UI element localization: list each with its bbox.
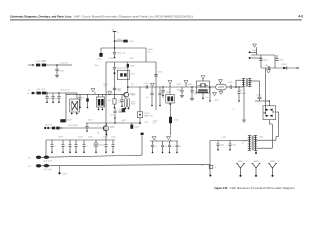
wire — [250, 80, 259, 82]
svg-text:47p: 47p — [97, 133, 100, 135]
inductor L4222 — [56, 127, 59, 130]
capacitor C4253 — [55, 65, 64, 75]
label L4201 — [36, 89, 45, 91]
label R4416 — [131, 101, 136, 105]
label misc 20 — [232, 109, 234, 111]
svg-text:C4223 1000p: C4223 1000p — [68, 125, 78, 127]
wire LO out — [261, 58, 297, 68]
svg-text:C4453: C4453 — [232, 145, 237, 147]
capacitor C4411 — [158, 87, 164, 106]
inductor L4202 — [42, 92, 46, 95]
label misc 17 — [107, 91, 112, 93]
connector P2 — [28, 164, 52, 171]
diode CR4462 — [281, 64, 287, 70]
mixer U4401 — [263, 106, 276, 120]
wire mixer right — [276, 112, 279, 140]
node — [56, 64, 58, 66]
capacitor C4437 inline — [228, 82, 233, 89]
label misc 1 — [117, 32, 119, 34]
capacitor C4416 inline — [144, 83, 149, 89]
svg-text:C4437: C4437 — [228, 82, 233, 84]
label R4427 — [122, 120, 127, 124]
capacitor C4408 — [113, 62, 126, 84]
wire — [34, 92, 66, 94]
svg-text:C4414: C4414 — [117, 90, 122, 92]
capacitor C4445 — [151, 141, 157, 153]
svg-text:0.1u: 0.1u — [131, 84, 134, 86]
label misc 11 — [259, 137, 264, 139]
svg-text:R4405: R4405 — [109, 58, 114, 60]
svg-text:C11: C11 — [82, 98, 85, 100]
svg-text:82p: 82p — [266, 65, 269, 67]
label misc 9 — [188, 84, 193, 86]
capacitor bus1 3 — [69, 140, 72, 153]
svg-text:10p: 10p — [146, 97, 149, 99]
svg-text:R4221 1K: R4221 1K — [45, 124, 53, 126]
label misc 16 — [29, 90, 31, 92]
label cluster mid — [117, 90, 136, 96]
capacitor bus1 4 — [75, 140, 78, 153]
capacitor C4465 — [256, 81, 261, 101]
svg-text:R4428: R4428 — [134, 126, 139, 128]
label choke area — [206, 97, 209, 99]
wire — [114, 114, 116, 124]
node — [209, 175, 211, 177]
ground tri bus left — [152, 137, 156, 141]
svg-text:L4403: L4403 — [129, 41, 134, 43]
svg-text:L4241 .56uH: L4241 .56uH — [43, 161, 52, 163]
wire through FL4401 — [196, 86, 210, 88]
capacitor C4453 — [229, 141, 237, 151]
svg-text:C4440: C4440 — [153, 120, 158, 122]
capacitor C4438 — [237, 86, 245, 101]
label misc 10 — [266, 65, 269, 67]
transformer T4402 — [242, 135, 257, 150]
wire T2 left — [210, 140, 249, 142]
wire — [256, 51, 258, 55]
svg-text:360: 360 — [153, 123, 156, 125]
label R4406 — [148, 49, 153, 53]
svg-text:L4405: L4405 — [131, 74, 135, 76]
label misc 3 — [94, 65, 98, 67]
svg-text:L4242 .56uH: L4242 .56uH — [43, 169, 52, 171]
svg-text:B+: B+ — [117, 32, 119, 34]
wire — [235, 80, 243, 88]
svg-text:.01: .01 — [65, 146, 67, 148]
svg-text:R4416: R4416 — [131, 101, 136, 103]
wire bus1 — [46, 139, 115, 141]
label misc 4 — [48, 98, 51, 100]
label misc 2 — [131, 84, 134, 86]
capacitor C4211 — [79, 94, 85, 108]
label misc 19 — [214, 100, 219, 102]
varactor box CR4202 — [70, 99, 80, 114]
label misc 12 — [54, 146, 56, 148]
wire — [239, 86, 243, 88]
svg-text:100: 100 — [104, 86, 107, 88]
svg-text:R4407: R4407 — [130, 65, 135, 67]
wire — [145, 48, 147, 62]
filter FL4402 — [216, 80, 226, 95]
svg-text:9.1p: 9.1p — [206, 97, 209, 99]
crystal filter FL4401 — [196, 76, 209, 93]
wire T2 bottom — [255, 150, 257, 154]
resistor R4407 — [127, 64, 136, 67]
wire collector Q4402 — [105, 123, 107, 126]
capacitor C4446 — [161, 141, 167, 153]
transistor Q4401 — [124, 92, 135, 97]
ground tri bus — [167, 136, 171, 141]
wire long1 — [41, 155, 142, 157]
svg-text:Q4402: Q4402 — [110, 127, 115, 129]
inductor L4221 — [52, 127, 55, 130]
svg-text:CR4462: CR4462 — [281, 64, 287, 66]
capacitor C4404 — [97, 53, 103, 60]
inductor L4405 box — [117, 70, 135, 79]
svg-text:8.2p: 8.2p — [54, 98, 57, 100]
wire — [57, 64, 72, 66]
svg-text:VHF Receiver Front-End Schemat: VHF Receiver Front-End Schematic Diagram — [230, 186, 296, 190]
wire loop2 — [256, 147, 272, 149]
capacitor C4415 — [119, 94, 126, 112]
label C4223 — [68, 125, 78, 127]
capacitor C4426 — [113, 108, 122, 119]
wire — [115, 40, 124, 42]
wire bus2 — [150, 140, 178, 142]
svg-text:4-9: 4-9 — [298, 15, 303, 19]
capacitor C4405 — [113, 47, 126, 58]
capacitor C4207 — [60, 119, 72, 122]
connector J1 RF input arrow — [28, 64, 35, 66]
svg-text:C4422: C4422 — [103, 137, 108, 139]
svg-text:C4420: C4420 — [78, 137, 83, 139]
ground — [55, 76, 59, 78]
capacitor C4414 — [113, 84, 122, 94]
svg-text:R13: R13 — [119, 102, 122, 104]
ground tri 1 — [168, 81, 172, 87]
label L4204 — [60, 90, 71, 92]
svg-text:IF: IF — [242, 143, 243, 145]
svg-text:10p: 10p — [164, 146, 167, 148]
svg-text:C4424: C4424 — [88, 119, 93, 121]
wire emitter Q4402 — [106, 131, 108, 135]
capacitor C4433 — [190, 86, 199, 101]
capacitor C4202 — [45, 92, 48, 103]
svg-text:12p: 12p — [48, 98, 51, 100]
wire loop1 — [256, 139, 276, 141]
svg-text:R4436: R4436 — [214, 100, 219, 102]
svg-text:E4403: E4403 — [270, 161, 275, 163]
capacitor bus1 5 — [83, 140, 86, 153]
svg-text:L4432: L4432 — [174, 120, 179, 122]
capacitor C4225 — [85, 123, 88, 132]
inductor L4251 — [36, 64, 40, 67]
svg-text:9.1p: 9.1p — [194, 93, 197, 95]
svg-text:P1-2: P1-2 — [28, 166, 31, 168]
svg-text:40282: 40282 — [132, 95, 136, 97]
svg-text:R51: R51 — [201, 165, 204, 167]
svg-text:C4412: C4412 — [107, 91, 112, 93]
capacitor C4463 — [275, 55, 283, 62]
svg-text:E4402: E4402 — [254, 161, 259, 163]
svg-text:10p: 10p — [162, 97, 165, 99]
wire box top — [106, 61, 156, 63]
inductor L4211 — [86, 94, 89, 108]
label cluster filt — [166, 89, 181, 93]
label L4251 values — [36, 61, 46, 63]
emitter loop 2 — [127, 99, 129, 110]
node — [114, 40, 116, 42]
wire long1 up — [141, 133, 144, 156]
label misc 5 — [54, 98, 57, 100]
svg-text:1000p: 1000p — [94, 65, 98, 67]
wire LO down — [263, 68, 265, 113]
wire y123 — [86, 122, 141, 123]
wire — [46, 64, 57, 66]
svg-text:R4410: R4410 — [104, 84, 109, 86]
wire choke — [170, 103, 172, 135]
wire collector — [127, 62, 129, 92]
capacitor C4410 — [146, 87, 154, 106]
filter box L4212 — [96, 94, 104, 110]
svg-text:C4253: C4253 — [59, 71, 64, 73]
wire box right — [155, 62, 157, 110]
svg-text:47: 47 — [98, 125, 100, 127]
svg-text:C4414: C4414 — [117, 88, 122, 90]
wire — [100, 48, 102, 53]
svg-text:C4415: C4415 — [110, 114, 115, 116]
resistor R4451 box — [201, 165, 217, 169]
wire — [66, 93, 77, 99]
capacitor C4409 — [154, 72, 162, 77]
svg-text:0.5: 0.5 — [232, 109, 234, 111]
inductor L4403 bead — [123, 40, 127, 43]
label misc 22 — [109, 58, 114, 60]
svg-text:Schematic Diagrams, Overlays,: Schematic Diagrams, Overlays, and Parts … — [10, 15, 72, 19]
transformer T4401 — [238, 78, 251, 91]
svg-text:C4455: C4455 — [259, 137, 264, 139]
wire base — [66, 93, 124, 95]
label L4403 — [129, 41, 134, 43]
svg-text:C4432: C4432 — [177, 84, 182, 86]
label R4412 R4413 — [119, 100, 122, 104]
svg-text:C4426: C4426 — [118, 110, 123, 112]
label misc 15 — [42, 61, 47, 63]
svg-text:10p: 10p — [179, 146, 182, 148]
svg-text:C4207: C4207 — [67, 119, 72, 121]
svg-text:C4452: C4452 — [220, 145, 225, 147]
component ground mark — [58, 166, 67, 176]
connector injection — [44, 124, 53, 129]
svg-text:0.1: 0.1 — [54, 146, 56, 148]
svg-text:E4401: E4401 — [238, 161, 243, 163]
svg-text:Figure 4-35.: Figure 4-35. — [215, 186, 229, 190]
wire — [255, 100, 270, 101]
svg-text:CR4421: CR4421 — [99, 145, 105, 147]
svg-text:C4461: C4461 — [252, 50, 257, 52]
svg-text:C4451: C4451 — [222, 137, 227, 139]
label CR4401 — [144, 113, 154, 117]
svg-text:R4417: R4417 — [131, 104, 136, 106]
header title text — [10, 15, 193, 19]
svg-text:330: 330 — [122, 122, 125, 124]
wire T1 bottom — [242, 87, 246, 122]
wire FL1 ground — [202, 93, 204, 99]
label misc 21 — [130, 58, 135, 60]
ground tri LO — [253, 44, 257, 51]
svg-text:R14: R14 — [108, 100, 111, 102]
connector RF in — [28, 92, 34, 95]
svg-text:C4404: C4404 — [97, 58, 102, 60]
svg-text:C4408 100p: C4408 100p — [117, 67, 126, 69]
wire — [209, 141, 211, 176]
test point E4402 — [251, 161, 260, 177]
svg-text:VHF Circuit Board/Schematic Di: VHF Circuit Board/Schematic Diagram and … — [74, 15, 194, 19]
capacitor bus1 1 — [51, 140, 54, 153]
label misc 8 — [177, 84, 182, 86]
label C4254 — [60, 62, 69, 64]
ground tri C4414 — [108, 92, 112, 95]
svg-text:C4430: C4430 — [144, 122, 149, 124]
wire mixer top — [268, 101, 270, 106]
svg-text:L4201 L4202: L4201 L4202 — [36, 89, 45, 91]
capacitor C4462 — [259, 55, 267, 62]
svg-text:▸: ▸ — [28, 92, 29, 95]
capacitor bus1 2 — [62, 140, 65, 153]
svg-text:C4407: C4407 — [130, 58, 135, 60]
label bus1 a — [58, 137, 116, 139]
svg-text:C4438: C4438 — [241, 93, 246, 95]
svg-text:C4462: C4462 — [263, 60, 268, 62]
label C4403 — [117, 39, 122, 41]
svg-text:C4432: C4432 — [177, 89, 182, 91]
svg-text:P1-1: P1-1 — [28, 157, 31, 159]
wire — [50, 127, 104, 129]
capacitor C4447 — [168, 141, 174, 153]
capacitor C4448 — [176, 141, 182, 153]
node — [114, 122, 115, 123]
capacitor C4432 — [180, 87, 184, 98]
wire mixer bottom — [269, 120, 272, 149]
svg-text:CR4401: CR4401 — [144, 113, 150, 115]
header rule — [10, 19, 302, 22]
ground tri 3 — [213, 92, 217, 95]
capacitor C4431 — [161, 86, 164, 96]
node — [209, 86, 211, 101]
label misc 13 — [65, 146, 67, 148]
svg-text:C4419: C4419 — [58, 137, 63, 139]
header page number — [298, 15, 303, 19]
wire box left — [105, 62, 107, 140]
wire — [251, 55, 275, 68]
svg-text:L4430: L4430 — [166, 92, 170, 94]
svg-text:C4254 9.1p: C4254 9.1p — [60, 62, 69, 64]
svg-text:C4423: C4423 — [111, 137, 116, 139]
resistor R4428 — [130, 123, 139, 129]
ground tri 2 — [184, 81, 188, 87]
ground tri out — [150, 83, 154, 86]
svg-text:150: 150 — [148, 51, 151, 53]
svg-text:C4465: C4465 — [256, 94, 261, 96]
wire — [65, 93, 67, 122]
wire — [101, 47, 146, 49]
svg-text:C4433: C4433 — [188, 84, 193, 86]
capacitor C4204 — [57, 92, 60, 103]
capacitor C4452 — [217, 141, 225, 151]
label 47 — [98, 125, 100, 127]
transistor Q4402 — [103, 126, 114, 132]
label misc 6 — [88, 119, 93, 121]
label C4451 — [222, 137, 227, 139]
node pin2 — [249, 57, 261, 59]
svg-text:C4409: C4409 — [157, 72, 162, 74]
power 5V flag — [112, 30, 116, 35]
test point E4403 — [268, 161, 277, 177]
capacitor bus1 6 — [112, 140, 115, 153]
label misc 14 — [86, 146, 88, 148]
resistor R4414 — [108, 94, 116, 108]
capacitor C4203 — [51, 93, 54, 103]
wire long2 — [41, 164, 210, 165]
svg-text:P1: P1 — [29, 90, 31, 92]
svg-text:C4463: C4463 — [279, 60, 284, 62]
svg-text:R4229: R4229 — [62, 173, 67, 175]
wire output — [128, 86, 196, 88]
svg-text:R4427: R4427 — [122, 120, 127, 122]
label misc 23 — [110, 114, 115, 116]
wire — [139, 87, 141, 112]
connector P1 — [28, 156, 52, 163]
reference CR4421 circle — [94, 140, 105, 153]
wire — [45, 140, 47, 157]
filter box L4430 — [166, 87, 174, 105]
inductor L4252 — [42, 64, 46, 67]
svg-text:10p: 10p — [154, 146, 157, 148]
svg-text:C4416: C4416 — [144, 83, 149, 85]
connector LO pin — [297, 67, 299, 69]
emitter loop 1 — [124, 99, 126, 110]
inductor L4432 — [169, 117, 179, 123]
node pins — [249, 50, 257, 53]
svg-text:T4401: T4401 — [238, 89, 243, 91]
svg-text:C4251: C4251 — [42, 61, 47, 63]
node — [60, 127, 61, 128]
capacitor bus1 7 — [105, 140, 108, 153]
varactor CR4401 — [137, 112, 142, 124]
label misc 7 — [97, 133, 100, 135]
test point E4401 — [236, 161, 245, 177]
svg-text:.01: .01 — [86, 146, 88, 148]
label C4440 — [153, 120, 158, 124]
svg-text:C4421: C4421 — [88, 137, 93, 139]
figure caption — [215, 186, 296, 190]
svg-text:C4405 12p: C4405 12p — [117, 53, 125, 55]
label R4410 — [104, 84, 109, 88]
wire — [210, 86, 239, 88]
label misc 18 — [144, 122, 149, 124]
ground tri base — [91, 89, 95, 95]
capacitor C4464 inline — [267, 66, 271, 73]
wire — [114, 35, 116, 49]
svg-text:L4204 0.22uH: L4204 0.22uH — [60, 90, 71, 92]
svg-text:10p: 10p — [171, 146, 174, 148]
inductor L4201 — [37, 92, 41, 95]
